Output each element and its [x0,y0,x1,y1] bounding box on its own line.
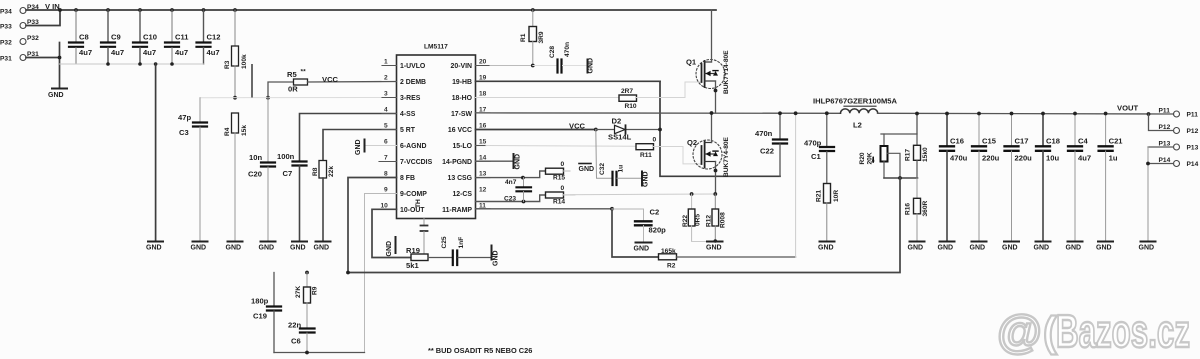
svg-text:C9: C9 [111,33,121,42]
svg-text:13 CSG: 13 CSG [447,175,472,182]
svg-text:P31: P31 [0,56,12,63]
U1 left pin numbers [381,59,389,210]
trimmer R20 20K [859,134,900,178]
svg-text:4: 4 [384,107,388,114]
svg-text:10u: 10u [1046,154,1059,163]
svg-text:470n: 470n [564,42,571,57]
svg-text:GND: GND [355,139,362,155]
svg-text:P32: P32 [27,35,39,42]
svg-text:1nF: 1nF [458,237,465,249]
svg-text:6-AGND: 6-AGND [400,143,426,150]
svg-text:C25: C25 [441,236,448,248]
svg-text:15k0: 15k0 [922,147,929,162]
junction CS-C23 [522,200,526,204]
ground GND under C2 [636,242,652,244]
svg-text:47p: 47p [178,113,191,122]
svg-text:220u: 220u [1015,154,1033,163]
junction RAMP [610,207,614,211]
junction D2 HB net [658,128,662,132]
svg-text:470n: 470n [755,129,773,138]
svg-text:GND: GND [146,245,162,252]
connector P14 [1148,157,1199,168]
svg-text:GND: GND [259,245,275,252]
resistor R15 0 [546,161,571,182]
svg-text:C2: C2 [650,208,660,217]
svg-text:4u7: 4u7 [143,48,156,57]
ground rotated after C32 [642,171,650,187]
svg-text:C19: C19 [253,312,267,321]
resistor R2 165k [659,248,796,270]
junction C1 at SW [825,111,829,115]
svg-text:16: 16 [479,123,487,130]
resistor R16 360R [905,178,930,242]
svg-text:P12: P12 [1159,124,1171,131]
svg-text:R5: R5 [287,70,297,79]
op-amp U1 LM5117 box [397,55,476,219]
svg-text:** BUD OSADIT R5 NEBO C26: ** BUD OSADIT R5 NEBO C26 [428,346,532,355]
svg-text:3-RES: 3-RES [400,95,421,102]
svg-text:VCC: VCC [569,122,586,131]
ground GND under dropper [148,241,163,243]
svg-text:GND: GND [908,245,924,252]
connector P13 [1148,141,1199,152]
svg-text:C10: C10 [143,33,157,42]
ground GND under P14 riser [1141,241,1156,243]
resistor R11 0 [636,137,702,164]
wire FB long run [348,178,900,273]
junction sense dots [690,192,718,196]
svg-text:820p: 820p [649,226,667,235]
capacitor C32 1u on VCC [596,130,641,186]
wire node A faint [200,97,382,99]
svg-text:4n7: 4n7 [505,179,517,186]
wire VCC pin 16 [476,129,596,131]
capacitor C1 470p snubber [804,113,834,183]
svg-text:(: ( [1043,308,1057,355]
svg-text:9: 9 [384,187,388,194]
svg-text:TH: TH [415,199,422,208]
svg-text:4-SS: 4-SS [400,111,416,118]
svg-text:100n: 100n [277,152,295,161]
svg-text:470u: 470u [950,154,968,163]
svg-text:0: 0 [561,185,565,192]
svg-text:180p: 180p [251,297,269,306]
resistor R8 22k on RT [312,130,397,242]
svg-text:GND: GND [1066,245,1082,252]
svg-text:2R7: 2R7 [621,88,633,95]
svg-text:4u7: 4u7 [175,48,188,57]
net VIN bus [26,9,716,11]
svg-text:L2: L2 [853,121,862,130]
svg-text:0: 0 [653,137,657,144]
wire cap bottom rail [60,63,204,65]
ground GND under C16 [940,241,955,243]
svg-text:9-COMP: 9-COMP [400,191,427,198]
svg-text:R14: R14 [553,198,565,205]
svg-text:C11: C11 [175,33,189,42]
capacitor C18 10u [1036,112,1060,242]
svg-text:1: 1 [384,59,388,66]
svg-text:R008: R008 [720,212,727,228]
ground rotated after C28 [588,58,595,74]
resistor R4 15k [224,113,248,242]
capacitor C7 100n on SS [277,114,397,242]
resistor R21 10R snubber [816,184,841,242]
svg-text:C12: C12 [207,33,221,42]
junction P14 [1146,162,1150,166]
capacitor C16 470u [940,112,968,242]
connector P32 [0,35,39,47]
svg-text:16 VCC: 16 VCC [448,127,472,134]
inductor L2 [813,97,898,130]
ground floating label GND [579,164,595,174]
svg-text:R17: R17 [905,149,912,161]
capacitor C21 1u [1099,112,1124,242]
capacitor C23 4n7 [504,178,531,203]
svg-text:4u7: 4u7 [111,48,124,57]
capacitor C8 [69,10,92,64]
ground rotated at pin 14 PGND [476,154,522,170]
wire HB vertical to rail [660,81,780,176]
resistor R14 0 [546,185,576,206]
svg-text:14: 14 [479,155,487,162]
svg-text:VOUT: VOUT [1117,104,1138,113]
svg-text:19: 19 [479,75,487,82]
wire FB pin 8 riser [348,178,397,273]
ground rotated after C25 [492,246,500,267]
svg-text:GND: GND [314,245,330,252]
capacitor C25 1nF [441,236,491,265]
wire RAMP down to R2 line [612,209,659,257]
svg-text:10: 10 [381,202,389,209]
svg-text:C23: C23 [504,196,516,203]
svg-text:GND: GND [1002,245,1018,252]
svg-text:C7: C7 [283,169,293,178]
svg-text:R9: R9 [312,286,319,295]
resistor R1 3R9 from bus to VIN pin [520,8,545,65]
svg-text:R19: R19 [406,246,420,255]
svg-text:15k: 15k [241,125,248,136]
svg-text:P11: P11 [1187,112,1199,119]
svg-text:GND: GND [191,245,207,252]
svg-text:R15: R15 [553,175,565,182]
ground label rotated on R19 wire [386,237,396,257]
svg-text:4u7: 4u7 [207,48,220,57]
svg-text:C28: C28 [549,46,556,58]
capacitor C12 [197,10,221,64]
svg-text:BUK7Y14-80E: BUK7Y14-80E [723,50,730,94]
resistor R19 5k1 [406,246,452,270]
svg-text:P32: P32 [0,40,12,47]
wire divider mid node [884,177,918,179]
svg-text:20K: 20K [867,152,874,164]
ground rotated at pin 6 AGND [355,139,397,155]
svg-text:R21: R21 [816,190,823,202]
svg-text:R1: R1 [520,33,527,42]
svg-text:GND: GND [1096,245,1112,252]
ground GND under C3 [193,241,208,243]
svg-text:P11: P11 [1159,108,1171,115]
svg-text:BUK7Y4-80E: BUK7Y4-80E [723,136,730,177]
svg-text:22k: 22k [328,166,335,177]
svg-text:LM5117: LM5117 [424,44,448,51]
svg-text:C17: C17 [1015,137,1029,146]
svg-text:C16: C16 [950,137,964,146]
resistor R17 15k0 [905,134,930,178]
svg-text:GND: GND [386,241,393,257]
svg-text:15-LO: 15-LO [452,143,472,150]
svg-text:C15: C15 [982,137,997,146]
svg-text:17-SW: 17-SW [451,111,473,118]
wire divider riser [881,114,917,135]
svg-text:GND: GND [1034,245,1050,252]
junction C22 at SW [778,111,782,115]
capacitor C4 4u7 [1068,112,1091,242]
connector P33 [0,19,39,31]
ground GND under shunt [692,242,723,252]
junction C6 bottom [305,351,309,355]
svg-text:D2: D2 [612,117,622,126]
svg-text:GND: GND [515,154,522,170]
svg-text:P13: P13 [1187,145,1199,152]
U1 right pin stubs [476,66,491,209]
svg-text:Bazos.cz: Bazos.cz [1056,305,1190,357]
svg-text:R11: R11 [640,152,652,159]
ground GND under R4 [228,241,243,243]
svg-text:18-HO: 18-HO [452,95,473,102]
svg-text:GND: GND [493,250,500,266]
svg-text:**: ** [301,69,307,76]
junction divider top [915,112,919,116]
svg-text:5k1: 5k1 [406,261,419,270]
connector P34 [0,4,39,16]
svg-text:10R: 10R [833,190,840,202]
wire COMP bottom run [274,352,365,354]
wire P33 to bus [26,10,60,26]
svg-text:10n: 10n [249,153,262,162]
junction P31 [58,56,62,60]
junction VIN pin [531,64,535,68]
connector P12 [1149,114,1199,135]
svg-text:C21: C21 [1109,137,1124,146]
svg-text:C3: C3 [179,128,189,137]
svg-text:18: 18 [479,91,487,98]
svg-text:R10: R10 [625,103,637,110]
svg-text:C20: C20 [248,170,262,179]
svg-text:R8: R8 [312,167,319,176]
svg-text:12: 12 [479,187,487,194]
svg-text:11-RAMP: 11-RAMP [442,207,472,214]
connector P31 [0,51,39,63]
svg-text:GND: GND [290,245,306,252]
svg-text:GND: GND [588,58,595,74]
junction VCC [594,128,598,132]
wire VOUT rail [878,112,1174,115]
wire VOUT pin10 down to R19 line [372,209,411,257]
svg-text:19-HB: 19-HB [452,79,472,86]
capacitor C6 22n [288,321,315,353]
pin EP pad bars under box [421,219,428,258]
resistor R9 27K [295,273,319,329]
svg-text:R20: R20 [859,152,866,164]
capacitor C3 47p [178,98,207,242]
wire HO pin 18 [476,97,620,99]
wire CS pin 12 [476,195,546,202]
U1 right pin numbers [479,59,487,210]
svg-text:R3: R3 [224,60,231,69]
svg-text:Q2: Q2 [687,138,697,147]
svg-text:C32: C32 [599,163,606,175]
junction R2 riser at SW [794,111,798,115]
resistor R5 0R jumper to VCC [268,69,397,98]
svg-text:360R: 360R [922,200,929,216]
svg-text:220u: 220u [982,154,1000,163]
ground GND under C4 [1068,241,1083,243]
svg-text:1-UVLO: 1-UVLO [400,63,426,70]
capacitor C9 [101,10,124,64]
capacitor C10 [133,10,157,64]
ground GND under C7 [292,241,307,243]
U1 left pin stubs [379,66,397,210]
ground GND under R8 [316,241,331,243]
wire R2 riser to SW [795,113,797,257]
wire stub vertical artifact [251,65,253,97]
svg-text:100k: 100k [241,54,248,69]
resistor R3 100k [224,10,248,98]
svg-text:P13: P13 [1159,141,1171,148]
resistor R12 R008 shunt [706,194,727,243]
svg-text:0R5: 0R5 [695,214,702,226]
ground GND under R21 [820,241,835,243]
wire COMP pin 9 riser [365,194,397,353]
svg-text:GND: GND [938,245,954,252]
connector P11 [1159,108,1199,119]
svg-text:8: 8 [384,171,388,178]
svg-text:IHLP6767GZER100M5A: IHLP6767GZER100M5A [813,97,898,106]
svg-text:R2: R2 [667,263,676,270]
diode D2 SS14L [596,117,660,142]
resistor R22 shunt [682,194,702,242]
junction FB tap [898,176,902,180]
junction P12 riser [1147,112,1151,116]
svg-text:3R9: 3R9 [538,31,545,43]
svg-text:C4: C4 [1078,137,1088,146]
capacitor C11 [165,10,189,64]
ground GND under C21 [1098,241,1113,243]
wire VIN pin 20 [490,65,533,67]
svg-text:22n: 22n [288,321,301,330]
svg-text:C6: C6 [291,337,301,346]
svg-text:C22: C22 [760,147,774,156]
resistor R10 2R7 [619,82,702,110]
svg-text:13: 13 [479,171,487,178]
svg-text:GND: GND [970,245,986,252]
svg-text:GND: GND [1139,245,1155,252]
svg-text:C1: C1 [811,152,821,161]
svg-text:C18: C18 [1046,137,1060,146]
svg-text:R22: R22 [682,215,689,227]
junction FB wire dots [305,271,350,275]
capacitor C2 820p on RAMP [612,208,666,243]
svg-text:0R: 0R [288,85,298,94]
svg-text:R12: R12 [706,215,713,227]
wire RAMP pin 11 [476,208,613,210]
svg-text:2: 2 [384,75,388,82]
svg-text:14-PGND: 14-PGND [442,159,472,166]
svg-text:6: 6 [384,139,388,146]
capacitor C17 220u [1005,112,1033,242]
capacitor C22 470n bootstrap [755,113,787,176]
capacitor C28 470n [533,42,587,73]
transistor Q2 BUK7Y4-80E [687,113,730,194]
wire shunt sense line [564,193,716,196]
svg-text:470p: 470p [804,139,822,148]
svg-text:4u7: 4u7 [79,48,92,57]
svg-text:GND: GND [579,166,595,173]
capacitor C20 10n [248,98,275,242]
wire gnd vertical [59,43,61,89]
junction CSG-C23 [521,176,525,180]
svg-text:12-CS: 12-CS [452,191,472,198]
svg-text:1u: 1u [1109,154,1118,163]
svg-text:C8: C8 [79,33,89,42]
ground GND under C18 [1036,241,1051,243]
svg-text:165k: 165k [661,248,676,255]
junction SW at Q2 drain [710,111,714,115]
capacitor C19 180p [251,273,281,353]
ground GND under R16 [910,241,925,243]
ground GND under P31 [52,88,67,90]
node A junctions [233,96,270,100]
svg-text:P12: P12 [1187,128,1199,135]
wire HB pin 19 [476,80,661,82]
svg-text:5: 5 [384,123,388,130]
svg-text:P33: P33 [0,24,12,31]
svg-text:20-VIN: 20-VIN [451,63,472,70]
svg-text:20: 20 [479,59,487,66]
svg-text:GND: GND [818,245,834,252]
svg-text:Q1: Q1 [686,58,697,67]
svg-text:GND: GND [643,171,650,187]
wire SW pin 17 [476,112,841,114]
svg-text:2 DEMB: 2 DEMB [400,79,426,86]
svg-text:5 RT: 5 RT [400,127,416,134]
wire P31 to gnd [26,57,60,59]
svg-text:3: 3 [384,91,388,98]
svg-text:8 FB: 8 FB [400,175,415,182]
svg-text:R4: R4 [224,127,231,136]
svg-text:GND: GND [48,92,64,99]
svg-text:P14: P14 [1159,157,1171,164]
wire P13 P14 gnd riser [1147,147,1149,242]
transistor Q1 BUK7Y14-80E [686,10,730,113]
svg-text:VCC: VCC [322,75,339,84]
capacitor C15 220u [972,112,1000,242]
ground GND under C20 [261,241,276,243]
svg-text:P34: P34 [27,4,39,11]
svg-text:7-VCCDIS: 7-VCCDIS [400,159,433,166]
U1 interior pin names [400,63,433,214]
wire rail dropper to gnd [155,64,157,242]
svg-text:4u7: 4u7 [1078,154,1091,163]
ground GND under C15 [972,241,987,243]
svg-text:P34: P34 [0,9,12,16]
svg-text:V IN: V IN [45,2,60,11]
junction bus dots [58,8,237,12]
svg-text:R16: R16 [905,203,912,215]
svg-text:1u: 1u [618,165,625,173]
wire CSG pin 13 [476,171,546,178]
